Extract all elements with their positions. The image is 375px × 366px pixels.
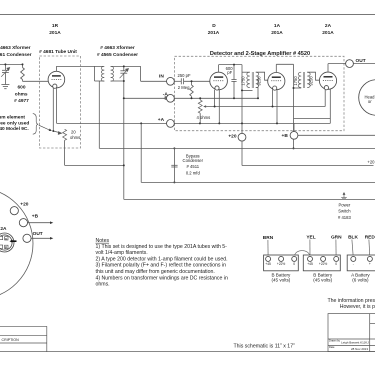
svg-text:pF: pF	[227, 70, 232, 75]
svg-text:+22½: +22½	[319, 262, 328, 266]
svg-text:Drawn by: Drawn by	[329, 338, 341, 342]
svg-text:BLK: BLK	[348, 235, 358, 241]
svg-text:However, it is pr: However, it is pr	[340, 304, 375, 310]
svg-text:# 4663 Xformer: # 4663 Xformer	[0, 45, 31, 51]
svg-text:4) Numbers on transformer wind: 4) Numbers on transformer windings are D…	[96, 275, 228, 281]
svg-text:# 4511: # 4511	[187, 164, 200, 169]
svg-text:this unit and may differ from: this unit and may differ from generic do…	[96, 269, 215, 275]
svg-text:28 Nov 2013: 28 Nov 2013	[351, 347, 368, 351]
svg-text:GRN: GRN	[331, 235, 342, 241]
svg-text:D: D	[212, 23, 216, 29]
svg-text:2A: 2A	[0, 226, 7, 232]
svg-text:Leigh Bassett K1JKJ: Leigh Bassett K1JKJ	[341, 341, 369, 345]
svg-text:# 4977: # 4977	[14, 98, 29, 104]
svg-text:1750: 1750	[293, 76, 298, 86]
svg-text:# 4681 Tube Unit: # 4681 Tube Unit	[39, 49, 77, 55]
svg-text:40 Model 9C.: 40 Model 9C.	[0, 126, 29, 132]
svg-text:+20: +20	[367, 159, 375, 164]
svg-text:-: -	[353, 262, 354, 266]
svg-text:YEL: YEL	[306, 235, 315, 241]
svg-text:1A: 1A	[274, 23, 281, 29]
svg-text:RED: RED	[365, 235, 375, 241]
svg-text:OUT: OUT	[33, 231, 43, 237]
svg-text:(45 volts): (45 volts)	[271, 278, 290, 283]
svg-text:ohms: ohms	[15, 91, 28, 97]
svg-text:# 4565 Condenser: # 4565 Condenser	[97, 52, 138, 58]
svg-text:1R: 1R	[52, 23, 59, 29]
svg-text:201A: 201A	[208, 30, 220, 36]
svg-text:Switch: Switch	[338, 209, 351, 214]
svg-text:1) This set is designed to use: 1) This set is designed to use the type …	[96, 244, 228, 250]
svg-text:0.2 mfd: 0.2 mfd	[186, 171, 201, 176]
svg-text:9250: 9250	[257, 76, 262, 86]
svg-text:+20: +20	[20, 201, 28, 207]
svg-text:(6 volts): (6 volts)	[352, 278, 369, 283]
svg-text:0: 0	[293, 262, 295, 266]
svg-text:201A: 201A	[322, 30, 334, 36]
svg-text:# 4663 Xformer: # 4663 Xformer	[100, 45, 135, 51]
svg-text:+B: +B	[32, 214, 39, 220]
svg-text:+20: +20	[228, 133, 236, 139]
svg-text:# 4561 Condenser: # 4561 Condenser	[0, 52, 32, 58]
svg-text:2 Meg: 2 Meg	[178, 85, 190, 90]
svg-text:num element: num element	[0, 115, 25, 121]
svg-text:Date: Date	[329, 345, 335, 349]
svg-text:This schematic is 11” x 17”: This schematic is 11” x 17”	[234, 343, 296, 349]
svg-text:20: 20	[71, 130, 76, 135]
svg-text:+45: +45	[307, 262, 313, 266]
svg-text:9250: 9250	[308, 76, 313, 86]
svg-text:Power: Power	[338, 202, 350, 207]
svg-text:+22½: +22½	[277, 262, 286, 266]
svg-text:250 pF: 250 pF	[178, 73, 191, 78]
svg-text:201A: 201A	[271, 30, 283, 36]
svg-text:(45 volts): (45 volts)	[313, 278, 332, 283]
svg-text:600: 600	[17, 85, 25, 91]
svg-text:Condenser: Condenser	[183, 158, 204, 163]
svg-text:2A: 2A	[325, 23, 332, 29]
svg-text:3) Filament polarity (F+ and F: 3) Filament polarity (F+ and F-) reflect…	[96, 263, 227, 269]
svg-text:# 4183: # 4183	[338, 215, 351, 220]
svg-text:The information presented i: The information presented i	[328, 298, 375, 304]
svg-text:+45: +45	[265, 262, 271, 266]
svg-text:201A: 201A	[49, 30, 61, 36]
svg-text:BRN: BRN	[263, 235, 274, 241]
svg-text:ohms: ohms	[70, 135, 80, 140]
svg-text:2) A type 200 detector with 1-: 2) A type 200 detector with 1-amp filame…	[96, 256, 228, 262]
svg-text:4 ohms: 4 ohms	[197, 115, 211, 120]
svg-text:or: or	[368, 99, 372, 104]
svg-text:+: +	[369, 262, 371, 266]
svg-text:IN: IN	[159, 73, 164, 79]
svg-text:+B: +B	[282, 133, 289, 139]
svg-text:volt 1/4-amp filaments.: volt 1/4-amp filaments.	[96, 250, 148, 256]
svg-text:+A: +A	[158, 117, 165, 123]
svg-text:P: P	[5, 245, 7, 249]
svg-text:ree only used: ree only used	[0, 121, 29, 127]
svg-text:CRIPTION: CRIPTION	[2, 338, 20, 342]
svg-text:ohms.: ohms.	[96, 282, 110, 288]
svg-text:1750: 1750	[241, 76, 246, 86]
svg-text:0: 0	[335, 262, 337, 266]
